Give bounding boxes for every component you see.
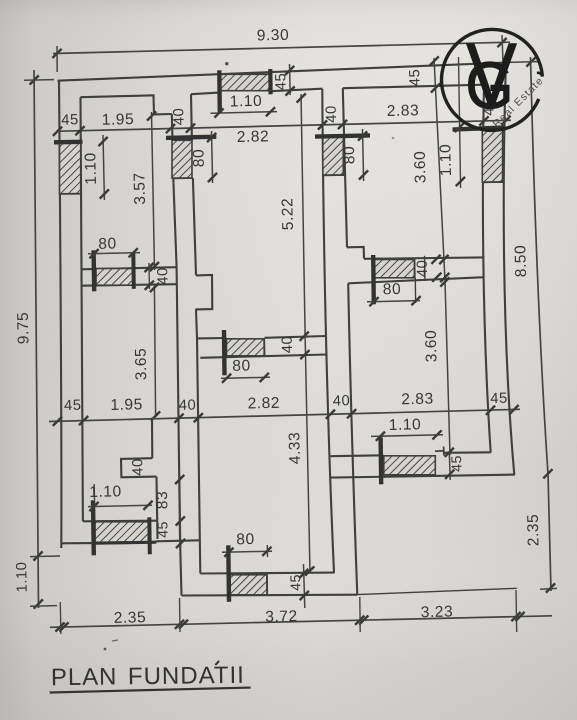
wall top inner face right	[343, 85, 484, 89]
dimension 1.10 pad P10	[371, 435, 443, 437]
wall bottom-centre top band top face	[197, 337, 227, 339]
wall bottom-left module bottom outer face	[61, 542, 93, 544]
wall bottom-left module bottom inner face	[83, 520, 158, 523]
footing pad P3 wall W1 80	[172, 140, 192, 178]
wall top inner face mid	[191, 93, 219, 95]
dimension 80 pad P3	[212, 131, 213, 183]
dimension 8.50 / 2.35 right	[531, 57, 552, 591]
dimension 40 wall H1	[148, 263, 150, 289]
wall bottom-centre bottom inner face	[200, 572, 334, 575]
dimension 45 wing wall	[445, 470, 454, 479]
wall bottom-right wing top face left	[331, 454, 384, 457]
dimension 9.30 top	[53, 42, 510, 53]
dimension 80 pad P9a	[221, 377, 270, 378]
dimension 5.22	[301, 94, 305, 340]
footing pad P4 central wall 80	[323, 137, 344, 176]
dimension 45 pad P1	[289, 64, 292, 95]
wall H1 top face	[81, 267, 177, 269]
wall central right face lower	[348, 283, 357, 595]
dimension 1.10 pad P1	[211, 112, 278, 114]
wall W2 right face	[197, 338, 200, 573]
wall pad-row top face	[364, 257, 484, 258]
dimension 80 pad P6	[367, 301, 420, 302]
footing pad P5 wall H1 80	[96, 269, 133, 286]
wall top inner face left	[81, 95, 172, 114]
wall H1 bottom face	[81, 284, 177, 286]
dimension 9.75 / 1.10 left	[34, 70, 39, 608]
footing pad P9a band pad 80	[227, 339, 265, 356]
dimension chain very bottom 2.35 3.72 3.23	[50, 616, 552, 628]
wall notch right of W1	[196, 275, 213, 309]
wall left inner face	[81, 97, 83, 521]
wall top inner face mid2	[271, 89, 323, 92]
dimension 80 pad P5	[88, 253, 140, 254]
dimension 3.65	[154, 285, 155, 417]
footing pad P9 bottom-centre 80	[230, 575, 267, 595]
logo VG Real Estate watermark	[442, 26, 547, 130]
wall bottom-right wing bottom face	[331, 475, 515, 478]
footing pad P2 left wall 1.10	[60, 142, 81, 194]
wall central right face upper	[343, 88, 347, 247]
footing pad P7 right wall 1.10	[482, 129, 502, 182]
wall right inner face	[483, 85, 491, 453]
wall bottom-right wing top face right	[444, 451, 491, 454]
wall bottom-centre module left face	[180, 539, 182, 595]
wall bottom-right wing step	[435, 450, 444, 452]
footing pad P1 top wall 1.10	[220, 74, 271, 90]
dimension 83 / 45 bottom-left	[180, 475, 181, 548]
wall W1 right face	[190, 94, 193, 140]
dimension 3.60 lower right	[445, 281, 450, 455]
wall pad-row bottom face	[348, 277, 484, 283]
footing pad P10 bottom-right wing 1.10	[384, 456, 436, 475]
terrace edge line	[358, 588, 517, 594]
wall W1 left face	[171, 114, 174, 141]
dimension 1.10 pad P8	[88, 505, 152, 506]
wall bottom-centre top band bottom face	[200, 355, 326, 358]
footing pad P6 pad-row 80	[374, 260, 415, 278]
dimension 40 P6 row	[431, 255, 440, 264]
wall left outer face	[59, 81, 61, 549]
wall jog box bottom-left module	[121, 458, 157, 477]
dimension 4.33	[305, 340, 310, 573]
wall central jog	[347, 247, 364, 259]
wall top outer face	[58, 63, 506, 81]
wall W2 left face	[177, 267, 180, 539]
dimension 45 bottom-centre	[304, 564, 305, 608]
wire extension bottom-left corner	[59, 602, 62, 634]
paper specks	[225, 62, 228, 65]
wall central left face	[322, 89, 334, 574]
footing pad P8 bottom-left 1.10	[95, 522, 148, 543]
dimension 80 pad P9	[222, 551, 272, 552]
dimension 3.57	[152, 112, 155, 270]
dimension chain 45 1.95 40 2.82 40 2.83 45	[56, 120, 511, 131]
dimension chain bottom 45 1.95 40 2.82 40 2.83 45	[49, 409, 520, 421]
dimension 45 / 3.60 / 40 right column	[434, 58, 445, 281]
wall right outer face	[504, 63, 515, 475]
wall bottom-centre bottom outer face	[182, 594, 358, 597]
dimension 80 pad P4	[363, 129, 364, 181]
dimension 1.10 pad P2	[103, 135, 104, 200]
title PLAN FUNDATII	[49, 661, 250, 693]
dimension 1.10 pad P7	[459, 57, 461, 188]
